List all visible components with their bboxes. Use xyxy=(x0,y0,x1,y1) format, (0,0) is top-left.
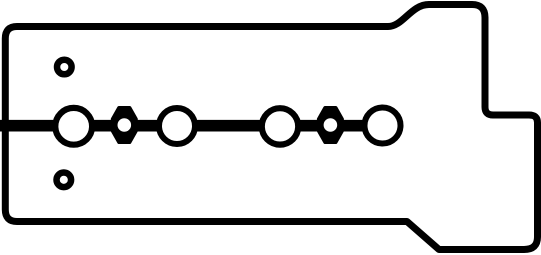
cross grommet 2 body xyxy=(318,108,342,143)
cross grommet 1 hole xyxy=(118,118,132,132)
small eyelet bottom-left xyxy=(57,173,72,188)
bolt circle 4 xyxy=(365,108,401,144)
cross grommet 2 hole xyxy=(324,118,338,132)
bolt circle 3 xyxy=(262,108,298,144)
cross grommet 1 body xyxy=(112,108,136,143)
center rail wire xyxy=(0,120,382,132)
bolt circle 1 xyxy=(55,108,92,145)
small eyelet top-left xyxy=(57,60,72,75)
bolt circle 2 xyxy=(159,108,195,144)
